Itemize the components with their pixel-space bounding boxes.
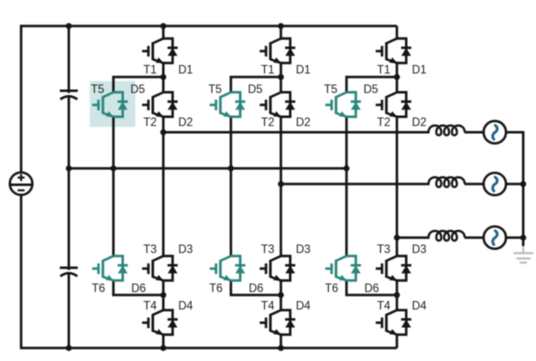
svg-text:D6: D6: [131, 283, 146, 295]
svg-text:T5: T5: [324, 84, 337, 96]
svg-text:T1: T1: [377, 64, 390, 76]
wire: leg C T3-T4 link: [396, 281, 399, 311]
wire: phase C output line: [397, 236, 430, 239]
wire: leg B T1-T2 link: [280, 63, 283, 92]
svg-text:T3: T3: [143, 244, 156, 256]
svg-text:D2: D2: [178, 117, 193, 129]
svg-text:T3: T3: [261, 244, 274, 256]
svg-text:T1: T1: [261, 64, 274, 76]
wire: leg A T5 collector to T1/T2 node: [113, 77, 163, 92]
svg-text:D5: D5: [130, 84, 145, 96]
transistor T5 (leg B): [210, 92, 232, 117]
svg-text:D5: D5: [248, 84, 263, 96]
svg-text:T2: T2: [143, 117, 156, 129]
transistor T2 (leg B): [260, 92, 282, 117]
transistor T5 (leg A): [92, 92, 114, 117]
wire: phase A output line: [163, 131, 429, 134]
wire: phase A inductor to source: [465, 131, 484, 134]
svg-text:D2: D2: [412, 117, 427, 129]
svg-text:T4: T4: [143, 301, 157, 313]
transistor T4 (leg A): [142, 310, 164, 335]
wire: leg B T5 collector to T1/T2 node: [231, 77, 281, 92]
junction: bottom rail / leg A: [160, 345, 166, 351]
transistor T2 (leg A): [142, 92, 164, 117]
wire: leg C T6 emitter to T3/T4 node: [347, 281, 397, 296]
junction: bottom rail / capacitor branch: [66, 345, 72, 351]
svg-text:T6: T6: [92, 283, 105, 295]
wire: leg A T6 emitter to T3/T4 node: [113, 281, 163, 296]
inductor LB: [429, 177, 465, 187]
wire: leg C T5 collector to T1/T2 node: [347, 77, 397, 92]
wire: phase B source to right bus: [506, 183, 524, 186]
wire: leg C T4 emitter to bottom rail: [396, 335, 399, 348]
wire: leg C T2 to T3 (output branch): [396, 117, 399, 256]
ground: [514, 246, 534, 263]
junction: leg A output node: [160, 129, 166, 135]
svg-text:D4: D4: [178, 301, 193, 313]
svg-text:T3: T3: [377, 244, 390, 256]
svg-text:T6: T6: [325, 283, 338, 295]
wire: leg B T5 emitter / T6 collector to neutral: [230, 117, 233, 256]
svg-text:T6: T6: [209, 283, 222, 295]
wire: leg C T1 collector to top rail: [396, 26, 399, 39]
svg-text:D2: D2: [296, 117, 311, 129]
wire: leg A T1-T2 link: [162, 63, 165, 92]
junction: leg C T3-T4 node: [394, 292, 400, 298]
junction: neutral line / leg B clamp branch: [228, 165, 234, 171]
svg-text:T2: T2: [377, 117, 390, 129]
wire: leg B T3-T4 link: [280, 281, 283, 311]
wire: phase B output line: [281, 183, 430, 186]
wire: leg C T1-T2 link: [396, 63, 399, 92]
transistor T1 (leg B): [260, 39, 282, 64]
svg-text:D1: D1: [412, 64, 427, 76]
wire: leg B T6 emitter to T3/T4 node: [231, 281, 281, 296]
capacitor C1: [60, 91, 78, 100]
junction: top rail / leg A: [160, 23, 166, 29]
svg-text:D5: D5: [363, 84, 378, 96]
svg-text:D3: D3: [178, 244, 193, 256]
svg-text:T5: T5: [208, 84, 221, 96]
svg-text:D3: D3: [296, 244, 311, 256]
diode D1 (leg A): [163, 39, 177, 64]
diode D3 (leg C): [397, 256, 411, 281]
wire: phase A source to right bus: [506, 131, 523, 134]
wire: leg B T1 collector to top rail: [280, 26, 283, 39]
svg-text:T2: T2: [261, 117, 274, 129]
diode D5 (leg C): [347, 92, 361, 117]
svg-text:T4: T4: [377, 301, 391, 313]
junction: leg B T3-T4 node: [278, 292, 284, 298]
junction: bottom rail / leg B: [278, 345, 284, 351]
svg-text:D4: D4: [296, 301, 311, 313]
diode D1 (leg C): [397, 39, 411, 64]
diode D4 (leg C): [397, 310, 411, 335]
junction: leg C output node: [394, 235, 400, 241]
wire: capacitor branch bottom: [68, 274, 71, 349]
wire: capacitor branch top: [68, 26, 71, 93]
wire: leg A T2 to T3 (output branch): [162, 117, 165, 256]
wire: right neutral bus: [522, 131, 525, 246]
transistor T1 (leg A): [142, 39, 164, 64]
junction: neutral line / leg A clamp branch: [110, 165, 116, 171]
diode D4 (leg B): [281, 310, 295, 335]
wire: phase C source to right bus: [506, 236, 524, 239]
diode D5 (leg A): [113, 92, 127, 117]
wire: DC midpoint (neutral) line: [69, 167, 347, 170]
svg-text:D6: D6: [364, 283, 379, 295]
transistor T4 (leg C): [376, 310, 398, 335]
wire: phase C inductor to source: [465, 236, 484, 239]
transistor T6 (leg A): [92, 256, 114, 281]
wire: leg B T4 emitter to bottom rail: [280, 335, 283, 348]
diode D1 (leg B): [281, 39, 295, 64]
inductor LC: [429, 231, 465, 241]
wire: phase B inductor to source: [465, 183, 484, 186]
svg-text:D1: D1: [296, 64, 311, 76]
wire: leg A T1 collector to top rail: [162, 26, 165, 39]
svg-text:T4: T4: [261, 301, 275, 313]
diode D6 (leg C): [347, 256, 361, 281]
svg-text:D1: D1: [178, 64, 193, 76]
svg-text:D3: D3: [412, 244, 427, 256]
transistor T2 (leg C): [376, 92, 398, 117]
inductor LA: [429, 125, 465, 135]
junction: capacitor midpoint (neutral): [66, 165, 72, 171]
transistor T4 (leg B): [260, 310, 282, 335]
AC source VA: [484, 121, 506, 143]
svg-text:T5: T5: [91, 84, 104, 96]
junction: leg A T1-T2 node: [160, 74, 166, 80]
wire: top DC rail: [21, 25, 397, 28]
transistor T6 (leg B): [210, 256, 232, 281]
junction: leg B T1-T2 node: [278, 74, 284, 80]
svg-text:T1: T1: [143, 64, 156, 76]
junction: leg C T1-T2 node: [394, 74, 400, 80]
AC source VC: [484, 226, 506, 248]
wire: left rail lower segment: [20, 195, 23, 349]
diode D2 (leg A): [163, 92, 177, 117]
svg-text:D6: D6: [249, 283, 264, 295]
wire: leg C T5 emitter / T6 collector to neutral: [345, 117, 348, 256]
diode D2 (leg C): [397, 92, 411, 117]
junction: leg A T3-T4 node: [160, 292, 166, 298]
diode D6 (leg A): [113, 256, 127, 281]
AC source VB: [484, 173, 506, 195]
junction: top rail / capacitor branch: [66, 23, 72, 29]
diode D2 (leg B): [281, 92, 295, 117]
wire: leg A T5 emitter / T6 collector to neutral: [112, 117, 115, 256]
junction: neutral line / leg C clamp branch: [344, 165, 350, 171]
diode D5 (leg B): [231, 92, 245, 117]
wire: bottom DC rail: [21, 347, 397, 350]
junction: right bus / phase C: [520, 235, 526, 241]
transistor T3 (leg A): [142, 256, 164, 281]
capacitor C2: [60, 268, 78, 277]
transistor T5 (leg C): [325, 92, 347, 117]
transistor T1 (leg C): [376, 39, 398, 64]
junction: leg B output node: [278, 181, 284, 187]
transistor T3 (leg C): [376, 256, 398, 281]
DC voltage source V1: [10, 172, 33, 195]
wire: capacitor branch middle: [68, 97, 71, 270]
wire: leg A T3-T4 link: [162, 281, 165, 311]
diode D3 (leg B): [281, 256, 295, 281]
transistor T3 (leg B): [260, 256, 282, 281]
diode D6 (leg B): [231, 256, 245, 281]
transistor T6 (leg C): [325, 256, 347, 281]
junction: right bus / phase B: [520, 181, 526, 187]
wire: leg A T4 emitter to bottom rail: [162, 335, 165, 348]
svg-text:D4: D4: [412, 301, 427, 313]
diode D4 (leg A): [163, 310, 177, 335]
highlight box on T5 of leg A: [90, 81, 136, 127]
junction: top rail / leg B: [278, 23, 284, 29]
wire: left rail upper segment: [20, 25, 23, 173]
diode D3 (leg A): [163, 256, 177, 281]
wire: leg B T2 to T3 (output branch): [280, 117, 283, 256]
